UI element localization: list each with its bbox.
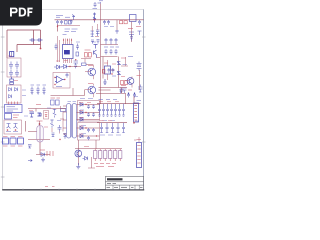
wire degauss feed (25, 121, 27, 132)
capacitor C20 left of U1 (55, 44, 58, 50)
ground mid rail (103, 79, 107, 84)
wire CN2 feed (133, 96, 135, 124)
wire main HV bus (55, 19, 144, 21)
text CY labels (31, 84, 47, 86)
capacitor CY3 to ground (42, 87, 45, 95)
transistor Q6 (14, 124, 18, 129)
wire output bus B (97, 122, 127, 124)
zener ZD6 aux (64, 134, 67, 139)
text R30 labels (51, 97, 61, 99)
sheet border frame (2, 9, 144, 190)
resistor R13 red (124, 21, 127, 24)
op-amp U1 PWM controller (63, 45, 74, 59)
wire RN1 top bus (94, 148, 123, 150)
text error amp labels (56, 86, 62, 88)
capacitor CD1 (105, 49, 108, 55)
capacitor CE3 (115, 38, 118, 45)
text top labels (93, 1, 104, 9)
wire Q2 leads (85, 65, 93, 80)
box snubber small (44, 111, 49, 120)
resistor R21 sense red (85, 53, 88, 58)
diode D3 (9, 95, 12, 99)
box degauss block (4, 120, 22, 134)
connector CN3 (137, 143, 142, 168)
wire secondary row 5 (77, 135, 100, 137)
diode D30 (38, 113, 42, 116)
zener ZD1 (93, 13, 96, 23)
relay K1 (5, 114, 12, 120)
zener ZD2 (53, 109, 56, 118)
text title block bottom cells (107, 186, 143, 188)
capacitor CB2 (102, 104, 105, 117)
zener ZD5 (117, 72, 120, 75)
text right-mid blue labels (112, 57, 133, 77)
wire mid double run (99, 88, 128, 94)
cluster snubber RC (74, 61, 79, 68)
capacitor CH1 (108, 68, 111, 73)
wire mid branch (121, 57, 128, 66)
resistor R30 (51, 100, 55, 105)
text right cluster labels (128, 27, 141, 29)
capacitor C43 (92, 113, 95, 117)
diode D21 below U1 (62, 65, 69, 69)
connector P2 (10, 138, 16, 144)
capacitor C21 right of U1 (76, 44, 79, 50)
capacitor C42 (87, 113, 90, 117)
transformer T1 main (67, 104, 77, 139)
diode D40 (80, 103, 83, 106)
wire primary aux (52, 106, 64, 134)
PDF badge (0, 0, 42, 26)
capacitor CD3 (115, 49, 118, 55)
wire secondary row 3 (77, 119, 100, 121)
cluster rail filter (120, 88, 124, 93)
diode D2 (15, 88, 18, 92)
wire bulk cap net (28, 109, 66, 112)
capacitor C10 on bus (56, 20, 59, 25)
resistor R42 red (102, 70, 105, 74)
connector P1 (3, 138, 9, 144)
diode D20 below U1 (54, 65, 62, 69)
capacitor CE2 (110, 38, 113, 45)
capacitor C16 on bus (70, 20, 73, 24)
capacitor CB7 (122, 104, 125, 117)
component VR1 (137, 62, 142, 71)
text component value labels blue (22, 27, 139, 136)
cluster aux marks (28, 145, 32, 162)
diode D41 (80, 111, 83, 114)
text degauss labels (6, 131, 18, 133)
IC U6 small (105, 66, 111, 74)
connector CN2 (134, 103, 139, 122)
resistor R32 (61, 109, 66, 112)
inductor L1 common-mode choke (10, 52, 14, 57)
diode D44 (80, 134, 83, 137)
op-amp U2 (55, 76, 65, 83)
thermistor RT1 (10, 77, 14, 84)
capacitor C11 on bus (60, 20, 63, 25)
pin stubs bridge (9, 102, 18, 105)
wire T1 stubs (63, 106, 67, 134)
capacitor bank row labels (99, 99, 118, 101)
capacitor CB1 (98, 104, 101, 117)
capacitor CF1 near border (138, 20, 141, 25)
capacitor CG1 on rail (127, 93, 130, 97)
title block (106, 176, 144, 189)
wire U5 drop (117, 20, 132, 42)
wire RN1 return (88, 157, 95, 168)
text sense labels (85, 49, 91, 51)
resistor R41 red (125, 81, 128, 85)
capacitor C41 (92, 105, 95, 109)
capacitor C45 (92, 128, 95, 132)
capacitor CB5 (114, 104, 117, 117)
node dots rail (128, 93, 135, 94)
node dots snubber (69, 59, 76, 67)
node dot bus (94, 19, 96, 21)
node dot N1 (40, 48, 42, 50)
wire startup resistor drop (57, 24, 59, 31)
node dots degauss (7, 129, 9, 131)
text CN3 label (137, 139, 142, 141)
wire U1 left (58, 36, 60, 62)
text bottom red marks (45, 186, 55, 188)
text title block name (107, 178, 123, 180)
capacitor C22 in block (66, 73, 69, 78)
resistor R20 right of U1 (76, 52, 79, 56)
capacitor CY2 to ground (36, 87, 39, 95)
text bulk label (36, 104, 41, 106)
capacitor CB3 (106, 104, 109, 117)
diode D51 with ground (36, 142, 50, 162)
cluster snubber right (129, 31, 142, 41)
wire standby rail (75, 140, 96, 165)
resistor R12 red (120, 21, 123, 24)
wire AC input staircase (7, 30, 41, 58)
wire Q4 leads (125, 77, 132, 88)
capacitor CC4 (117, 123, 120, 133)
wire long vertical VCC (100, 20, 102, 104)
resistor R11 on bus (68, 21, 71, 24)
wire drain net (68, 58, 100, 67)
capacitor CX1 (30, 38, 36, 41)
capacitor C15 (116, 31, 119, 34)
node dot aux (59, 139, 60, 140)
text T1 label (37, 120, 43, 122)
cluster aux snub (52, 133, 55, 137)
IC U5 small block on bus (130, 15, 137, 22)
resistor R22 sense red (89, 53, 92, 58)
cluster startup divider (91, 30, 100, 44)
wire right mid rails (101, 57, 140, 91)
capacitor CX2 (37, 38, 43, 41)
cluster sync (121, 88, 127, 94)
text PWM section labels (63, 29, 78, 35)
text PDF letters (10, 8, 33, 17)
capacitor C30 (58, 125, 62, 132)
capacitor CB4 (110, 104, 113, 117)
capacitor C12 top edge (94, 2, 101, 7)
wire T1 primary (28, 121, 50, 140)
node dot primary (39, 123, 41, 125)
transistor Q2 circle (88, 68, 96, 76)
capacitor CD2 (110, 49, 113, 55)
text right-mid labels (104, 58, 141, 76)
connector P3 (18, 138, 24, 144)
capacitor C14 on bus right (107, 20, 110, 25)
wire top-edge branch (100, 4, 102, 20)
resistor R31 (56, 100, 60, 105)
capacitor CH2 (112, 68, 115, 73)
wire 12V rail (96, 93, 126, 103)
component near border (138, 85, 143, 93)
box secondary rect bank A (78, 101, 100, 122)
capacitor CC1 (100, 123, 103, 133)
wire secondary row 2 (77, 112, 100, 114)
text title block row2 (107, 183, 116, 185)
node dot CN2 (133, 122, 135, 124)
text component refdes labels red (8, 56, 125, 147)
capacitor C2 (15, 62, 19, 70)
transistor Q7 circle (75, 150, 82, 157)
border zone ticks (1, 37, 146, 191)
IC U3 regulator block (5, 105, 23, 113)
transistor Q3 circle (88, 86, 96, 94)
text bus labels (56, 16, 70, 18)
diode D50 (83, 157, 88, 161)
wire gate net (81, 59, 91, 63)
resistor R23 (82, 63, 87, 66)
wire aux bus (57, 25, 80, 27)
text connector labels (3, 136, 23, 146)
pin stubs U1 bottom (64, 59, 72, 64)
capacitor C46 (87, 136, 90, 140)
PDF badge (0, 0, 46, 28)
text K1 value (13, 115, 19, 117)
wire secondary row 1 (77, 104, 100, 106)
wire CN3 stub (134, 137, 139, 143)
wire feedback net (51, 88, 85, 96)
zener ZD4 (117, 61, 120, 64)
ground Q7 (76, 163, 80, 169)
node dot CH (111, 73, 112, 74)
wire RN1 pins (95, 149, 120, 161)
text CD labels (104, 46, 119, 48)
capacitor C44 (87, 128, 90, 132)
resistor R40 red (121, 81, 124, 85)
capacitor C13 on bus right (103, 20, 106, 25)
capacitor CC2 (106, 123, 109, 133)
diode D10 (72, 15, 75, 20)
text sync labels (121, 86, 132, 91)
capacitor C1 (9, 62, 13, 70)
wire startup drops (92, 24, 99, 37)
box error-amp block (53, 73, 70, 89)
wire U6 leads (108, 60, 115, 80)
wire aux rail right (101, 44, 119, 46)
wire secondary row 4 (77, 127, 100, 129)
capacitor CY1 to ground (30, 87, 33, 95)
node dot startup (57, 26, 58, 27)
text CN2 label (137, 100, 142, 102)
wire PWM pin risers (64, 39, 72, 45)
zener ZD3 (50, 120, 53, 128)
node dots secondary (85, 104, 97, 137)
wire Q3 leads (85, 84, 93, 98)
capacitor C4 (15, 70, 19, 78)
transformer T2 small (37, 126, 43, 143)
capacitor CC3 (111, 123, 114, 133)
node dots error amp (54, 77, 65, 85)
diode D1 (9, 88, 12, 92)
capacitor C31 bulk (30, 112, 35, 117)
diode D42 (80, 118, 83, 121)
transistor Q4 circle (127, 78, 134, 85)
box bridge-rectifier block (7, 85, 22, 103)
transistor Q1 mosfet (94, 45, 98, 58)
node dots PWM pins (63, 39, 72, 40)
capacitor C3 (9, 70, 13, 78)
transistor Q5 (7, 124, 11, 129)
text U3 labels (7, 107, 19, 111)
capacitor CG2 on rail (133, 93, 136, 97)
diode D43 (80, 126, 83, 129)
capacitor CE1 (105, 38, 108, 45)
text Q labels (88, 66, 93, 84)
capacitor CB6 (118, 104, 121, 117)
wire output bus A (97, 103, 141, 105)
resistor array RN1 (94, 151, 122, 159)
resistor R10 on bus (65, 21, 68, 24)
box secondary rect bank B (78, 123, 100, 141)
text RN1 labels (94, 164, 116, 167)
capacitor C40 (87, 105, 90, 109)
box line-filter block (7, 58, 21, 77)
text D51 label (40, 149, 45, 151)
capacitor CC5 (122, 123, 125, 133)
cluster test points (47, 151, 53, 156)
